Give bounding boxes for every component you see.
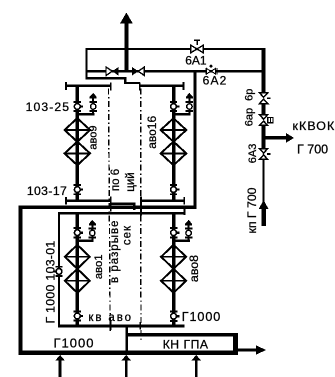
vent of upper-left column bbox=[76, 93, 97, 116]
wire: main outlet riser (thick) to gas main bbox=[124, 21, 128, 72]
arrow: to КВОК bbox=[286, 133, 294, 142]
valve upper-right outlet bbox=[170, 184, 179, 195]
wire: right outlet header bbox=[140, 200, 185, 202]
svg-text:аво16: аво16 bbox=[145, 116, 159, 149]
vent of lower-right column bbox=[172, 220, 192, 242]
svg-text:103-17: 103-17 bbox=[27, 184, 67, 198]
svg-text:КН ГПА: КН ГПА bbox=[163, 338, 209, 352]
arrow: input from ГПА #1 bbox=[55, 355, 64, 377]
svg-text:кп Г 700: кп Г 700 bbox=[245, 187, 259, 233]
collector КН ГПА box left edge bbox=[125, 326, 128, 352]
valve 103-01 bbox=[53, 266, 63, 277]
wire: upper-right column bbox=[172, 86, 176, 201]
svg-text:аво9: аво9 bbox=[87, 126, 99, 150]
svg-text:кКВОК: кКВОК bbox=[293, 119, 335, 133]
svg-text:6А3: 6А3 bbox=[247, 144, 259, 164]
AVO unit аво16 diamond 1 bbox=[161, 118, 187, 142]
valve upper-right inlet bbox=[170, 101, 179, 112]
wire: loop left edge x20.4 bbox=[19, 205, 23, 355]
wire: branch to КВОК bbox=[264, 136, 287, 139]
valve кв аво bbox=[74, 310, 84, 321]
flange tall tick x110.7 (section break) bbox=[110, 197, 112, 212]
wire: spool jog vertical bbox=[133, 203, 135, 210]
svg-text:6А1: 6А1 bbox=[185, 54, 207, 68]
svg-text:6р: 6р bbox=[244, 89, 256, 101]
valve 103-25 bbox=[74, 101, 84, 112]
arrow: incoming from кп Г 700 (head) bbox=[259, 200, 269, 209]
collector КН ГПА box top edge bbox=[125, 333, 237, 337]
wire: spool jog upper bar bbox=[111, 203, 135, 205]
wire: vertical connector x86.5 (y49-y79) bbox=[85, 48, 87, 80]
wire: lower-left column bbox=[76, 213, 80, 326]
svg-text:сек: сек bbox=[121, 225, 133, 245]
flange tick bottom spool right bbox=[139, 322, 141, 330]
valve left of outlet riser (open-right/filled-left) bbox=[106, 67, 118, 76]
valve 103-17 bbox=[74, 184, 84, 195]
wire: header B (y71) valves line bbox=[85, 70, 265, 72]
section boundary line (left, dash-dot) bbox=[109, 89, 111, 332]
AVO unit аво9 diamond 1 bbox=[65, 118, 91, 142]
wire: stub from spool down to collector bbox=[125, 326, 128, 333]
wire: lower inlet header y213.4 bbox=[58, 212, 185, 214]
wire: upper-left column bbox=[76, 86, 80, 201]
valve Г1000 (lower-right outlet) bbox=[170, 311, 180, 322]
wire: right inlet header y85.6 bbox=[140, 85, 184, 87]
AVO unit аво8 diamond 1 bbox=[161, 245, 186, 269]
wire: bridge step down at x125 bbox=[124, 77, 126, 84]
svg-text:Г 1000 103-01: Г 1000 103-01 bbox=[43, 240, 57, 323]
valve 6А1 bbox=[191, 40, 203, 53]
wire: thick shaft of incoming arrow bbox=[261, 209, 265, 226]
wire: right riser between 6ар and branch/6А3 bbox=[262, 124, 266, 149]
wire: lower-right column bbox=[172, 213, 176, 326]
wire: left outlet header bbox=[66, 200, 111, 202]
vent of lower-left column bbox=[76, 220, 96, 242]
flange tick right end of lower inlet header bbox=[184, 209, 186, 215]
wire: thin riser below 6А3 bbox=[263, 159, 265, 202]
wire: pipe x59 (Г1000 103-01) bbox=[58, 212, 60, 327]
AVO unit аво8 diamond 2 bbox=[161, 269, 186, 293]
arrow: input from ГПА #3 bbox=[192, 355, 201, 377]
svg-text:в разрыве: в разрыве bbox=[109, 220, 121, 283]
wire: loop right edge x195.2 bbox=[194, 70, 197, 208]
valve lower-right inlet bbox=[170, 227, 180, 238]
vent of upper-right column bbox=[172, 93, 193, 116]
svg-text:Г1000: Г1000 bbox=[182, 310, 221, 324]
valve 6А3 bbox=[260, 149, 271, 160]
svg-text:по 6: по 6 bbox=[110, 169, 122, 191]
svg-text:аво1: аво1 bbox=[93, 254, 105, 279]
svg-text:6А2: 6А2 bbox=[203, 74, 228, 88]
arrow: main outlet up-arrow head bbox=[120, 13, 133, 24]
flange tick bottom spool left bbox=[110, 321, 112, 331]
valve 6ар bbox=[260, 115, 273, 126]
svg-text:аво8: аво8 bbox=[187, 255, 201, 282]
flange tall tick x141 (section break) bbox=[140, 197, 142, 216]
svg-text:6ар: 6ар bbox=[244, 108, 256, 126]
flange tick left end of left outlet header bbox=[65, 197, 67, 205]
wire: header A (y49) from x86 to right riser bbox=[85, 48, 265, 50]
section boundary line (right, dash-dot) bbox=[140, 89, 142, 342]
arrow: input from ГПА #2 bbox=[122, 355, 131, 377]
wire: collector outlet to right bbox=[238, 348, 257, 351]
flange tick left end of left inlet header bbox=[65, 82, 67, 90]
wire: left inlet header y85.6 bbox=[66, 85, 112, 87]
AVO unit аво1 diamond 2 bbox=[65, 269, 90, 293]
flange tick right end of right outlet header bbox=[183, 197, 185, 205]
collector КН ГПА box right edge bbox=[233, 333, 238, 355]
svg-text:ций: ций bbox=[125, 172, 137, 191]
AVO unit аво9 diamond 2 bbox=[65, 142, 91, 166]
svg-text:Г 700: Г 700 bbox=[297, 143, 328, 157]
flange tick right end of right inlet header bbox=[183, 82, 185, 90]
valve 6р bbox=[260, 93, 271, 104]
svg-text:Г1000: Г1000 bbox=[54, 336, 95, 351]
AVO unit аво16 diamond 2 bbox=[161, 142, 187, 166]
wire: bottom outlet header y326 bbox=[58, 325, 185, 328]
flange tick left end of right inlet header bbox=[139, 83, 141, 91]
wire: loop top edge y206.8 bbox=[19, 205, 197, 209]
wire: loop/collector bottom edge bbox=[19, 351, 238, 355]
wire: bridge lower segment to right header bbox=[124, 82, 140, 84]
flange tick right end of left inlet header bbox=[110, 83, 112, 91]
wire: right riser x263.6 upper part bbox=[262, 48, 266, 94]
valve right of outlet riser (filled-left/open-right) bbox=[132, 67, 144, 76]
arrow: collector outlet head bbox=[256, 345, 266, 354]
AVO unit аво1 diamond 1 bbox=[65, 245, 90, 269]
wire: bridge from x86.5 over section break (y78) bbox=[85, 77, 126, 79]
valve 6А2 bbox=[205, 65, 217, 75]
svg-text:103-25: 103-25 bbox=[26, 100, 71, 114]
valve lower-left inlet bbox=[74, 227, 84, 238]
wire: right riser between 6р and 6ар bbox=[262, 103, 266, 117]
